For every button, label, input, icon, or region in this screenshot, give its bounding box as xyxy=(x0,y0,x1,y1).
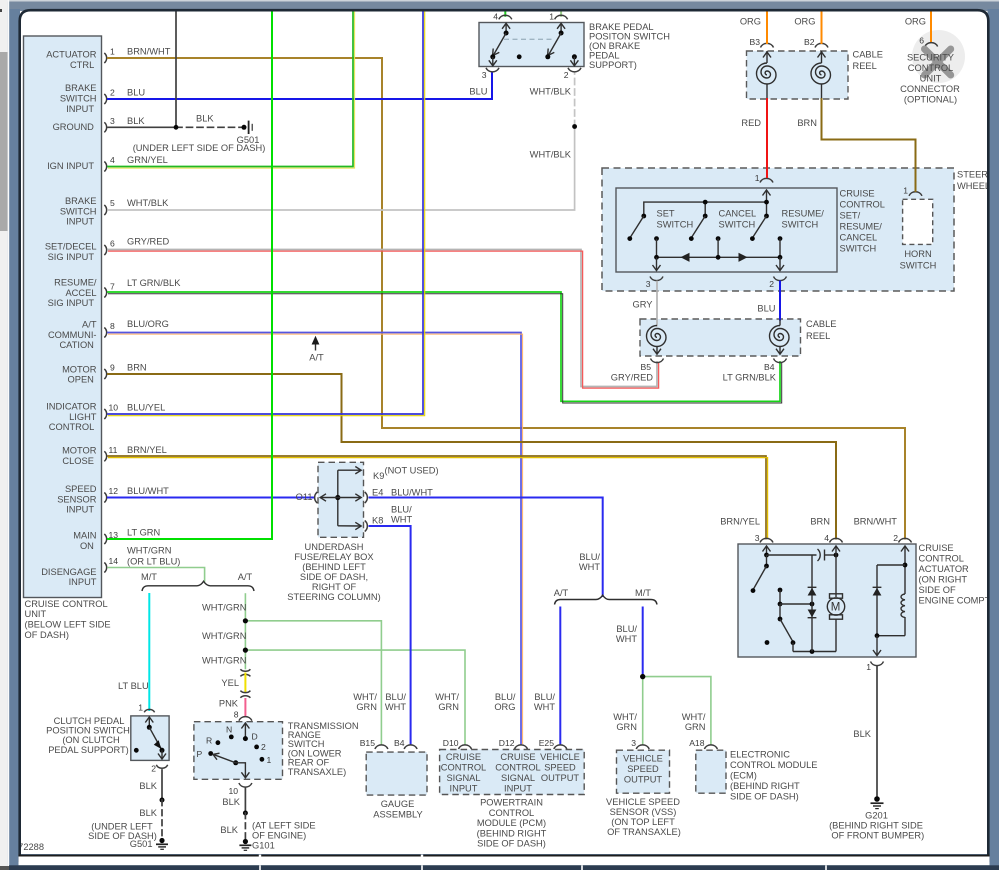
svg-text:VEHICLE SPEEDSENSOR (VSS)(ON T: VEHICLE SPEEDSENSOR (VSS)(ON TOP LEFTOF … xyxy=(606,797,681,837)
brake pedal position switch (ON BRAKE PEDAL SUPPORT) xyxy=(479,22,670,70)
svg-text:BLU/YEL: BLU/YEL xyxy=(127,403,165,413)
cable reel coil B2 side xyxy=(811,51,830,99)
svg-text:BLK: BLK xyxy=(139,808,157,818)
scrollbar xyxy=(0,0,9,870)
clutch switch internals xyxy=(134,717,166,759)
svg-text:LT GRN/BLK: LT GRN/BLK xyxy=(127,278,181,288)
A/T M/T brace split for speed signal xyxy=(554,588,657,605)
svg-text:BRN/YEL: BRN/YEL xyxy=(127,445,167,455)
connector A18 xyxy=(689,738,717,749)
svg-text:9: 9 xyxy=(110,363,115,373)
wire LT GRN pin13 net xyxy=(108,11,272,539)
wire WHT/BLK pin5 net: U1-5 to brake pedal switch pin 2 xyxy=(108,74,575,211)
svg-text:2: 2 xyxy=(261,742,266,752)
svg-text:B15: B15 xyxy=(360,738,376,748)
junction VSS split xyxy=(640,674,645,679)
wire BLU/YEL pin10 net xyxy=(108,11,425,416)
svg-text:B3: B3 xyxy=(749,37,760,47)
svg-text:3: 3 xyxy=(755,533,760,543)
svg-text:BLK: BLK xyxy=(220,825,238,835)
inline connector WHT/GRN-YEL xyxy=(240,669,250,676)
svg-text:10: 10 xyxy=(228,786,238,796)
svg-text:(BEHIND RIGHT SIDE: (BEHIND RIGHT SIDE xyxy=(829,821,923,831)
svg-text:BRN: BRN xyxy=(810,517,830,527)
wire WHT/GRN (OR LT BLU) pin14 net to M/T A/T split xyxy=(108,546,205,582)
wire GRY/RED pin6 net: U1-6 to cable reel B5 xyxy=(108,237,659,389)
svg-text:2: 2 xyxy=(564,70,569,80)
svg-text:(UNDER LEFT SIDE OF DASH): (UNDER LEFT SIDE OF DASH) xyxy=(133,143,266,153)
svg-text:WHT/GRN: WHT/GRN xyxy=(202,603,246,613)
svg-text:8: 8 xyxy=(110,321,115,331)
actuator pin3 entry arrow and main switch xyxy=(751,546,771,593)
wire ORG to B3 xyxy=(740,11,767,43)
cruise control set/resume/cancel switch box xyxy=(616,188,885,272)
brake switch pin 4 connector with green stub xyxy=(493,11,512,22)
clutch switch pin 2 connector xyxy=(151,764,167,774)
connector B2 xyxy=(804,37,828,48)
svg-text:ORG: ORG xyxy=(905,17,926,27)
wire BLU/WHT A/T branch to PCM E25 xyxy=(534,608,560,745)
svg-text:5: 5 xyxy=(110,198,115,208)
wire ORG to B2 xyxy=(794,11,821,43)
actuator pin2 branch with diode D3 and solenoid L1 xyxy=(873,546,909,656)
svg-text:OF FRONT BUMPER): OF FRONT BUMPER) xyxy=(831,831,924,841)
svg-text:PNK: PNK xyxy=(219,699,239,709)
svg-text:BLK: BLK xyxy=(139,781,157,791)
powertrain control module PCM (dashed) xyxy=(440,750,585,849)
fuse box E4 connector xyxy=(338,488,433,504)
wire BLK pin3 net to G501 splice xyxy=(108,11,242,127)
svg-text:BLK: BLK xyxy=(853,729,871,739)
svg-text:K9: K9 xyxy=(373,471,384,481)
set switch SW1 xyxy=(627,209,693,242)
svg-text:A/T: A/T xyxy=(238,572,253,582)
brake switch left pole xyxy=(489,23,510,66)
ground G201 (BEHIND RIGHT SIDE OF FRONT BUMPER) xyxy=(829,796,924,840)
wire BRN/WHT pin1 net: U1-1 to actuator pin 2 xyxy=(108,47,905,539)
cable reel lower coil B5 xyxy=(647,326,667,355)
svg-text:4: 4 xyxy=(493,12,498,22)
svg-text:(NOT USED): (NOT USED) xyxy=(385,466,439,476)
svg-text:4: 4 xyxy=(110,155,115,165)
U1 pin 12 connector xyxy=(104,486,118,503)
cruise switch top bus xyxy=(644,200,769,216)
wire BLU/WHT pin12 net: U1-12 to fuse box O11 xyxy=(108,486,314,498)
connector B5 xyxy=(611,359,664,383)
wire BLU/WHT M/T branch to VSS xyxy=(616,608,643,677)
svg-text:BLU: BLU xyxy=(127,88,145,98)
svg-text:B2: B2 xyxy=(804,37,815,47)
actuator secondary switch chain xyxy=(765,588,836,654)
wire BLU cruise switch pin2 to cable reel xyxy=(757,282,780,326)
svg-text:R: R xyxy=(206,736,212,746)
fuse box O11 connector xyxy=(296,492,338,503)
svg-text:7: 7 xyxy=(110,282,115,292)
wire ORG to security connector xyxy=(905,11,931,42)
actuator diode D2 (down) xyxy=(808,610,817,618)
svg-text:K8: K8 xyxy=(372,516,383,526)
svg-text:10: 10 xyxy=(109,403,119,413)
svg-text:M: M xyxy=(831,602,841,614)
svg-text:BLK: BLK xyxy=(127,116,145,126)
wire RED from B3 to cruise switch pin 1 xyxy=(741,99,767,177)
connector D10 xyxy=(443,738,472,749)
fuse box internal bus xyxy=(335,470,340,526)
svg-text:1: 1 xyxy=(110,47,115,57)
wire BLK from pin 10 to G101 xyxy=(222,788,247,841)
svg-text:4: 4 xyxy=(824,533,829,543)
svg-text:GRN/YEL: GRN/YEL xyxy=(127,155,168,165)
U1 pin 2 connector xyxy=(104,88,115,105)
actuator pin 2 connector xyxy=(893,533,911,543)
svg-text:3: 3 xyxy=(646,279,651,289)
wire BLU/ORG pin8 net: U1-8 to PCM D12 xyxy=(108,319,523,744)
horn switch pin 1 connector xyxy=(903,186,922,196)
svg-text:WHT/GRN: WHT/GRN xyxy=(353,692,377,712)
svg-text:CONNECTOR(OPTIONAL): CONNECTOR(OPTIONAL) xyxy=(900,84,960,105)
cable reel lower coil B4 xyxy=(770,326,790,355)
brake switch pin 1 connector with green stub xyxy=(549,11,567,22)
U1 pin 1 connector xyxy=(104,47,115,64)
svg-text:BLU/WHT: BLU/WHT xyxy=(385,692,407,712)
svg-text:12: 12 xyxy=(109,486,119,496)
svg-text:G201: G201 xyxy=(865,811,888,821)
svg-text:BLU: BLU xyxy=(469,87,487,97)
svg-text:E4: E4 xyxy=(372,488,383,498)
wire WHT/GRN branch to gauge assembly B15 xyxy=(245,621,381,744)
svg-text:WHT/GRN: WHT/GRN xyxy=(613,712,637,732)
svg-text:VEHICLESPEEDOUTPUT: VEHICLESPEEDOUTPUT xyxy=(623,754,663,785)
U1 pin 8 connector xyxy=(104,321,115,338)
svg-text:OF ENGINE): OF ENGINE) xyxy=(252,831,306,841)
brake switch pin 3 connector xyxy=(482,68,499,80)
connector B15 xyxy=(360,738,388,749)
gauge assembly (dashed) xyxy=(366,752,427,819)
svg-text:VEHICLESPEEDOUTPUT: VEHICLESPEEDOUTPUT xyxy=(540,752,580,783)
ground G501 (UNDER LEFT SIDE OF DASH) xyxy=(88,822,168,850)
svg-text:6: 6 xyxy=(919,36,924,46)
transmission switch pin 10 connector xyxy=(228,783,251,796)
svg-text:ORG: ORG xyxy=(794,17,815,27)
cruise control actuator (ON RIGHT SIDE OF ENGINE COMPT) xyxy=(738,543,993,657)
brake switch right pole xyxy=(545,23,578,66)
connector D12 xyxy=(499,738,528,749)
U1 pin 6 connector xyxy=(104,239,115,256)
actuator motor M xyxy=(827,594,844,652)
actuator pin4 line to motor xyxy=(832,546,840,597)
svg-text:(OR LT BLU): (OR LT BLU) xyxy=(127,557,180,567)
svg-text:POWERTRAINCONTROLMODULE (PCM)(: POWERTRAINCONTROLMODULE (PCM)(BEHIND RIG… xyxy=(477,798,547,849)
svg-text:WHT/BLK: WHT/BLK xyxy=(530,87,572,97)
svg-text:BLU/WHT: BLU/WHT xyxy=(534,692,556,712)
svg-text:WHT/GRN: WHT/GRN xyxy=(202,631,246,641)
wire WHT/GRN branch to PCM D10 xyxy=(245,650,465,744)
svg-text:2: 2 xyxy=(893,533,898,543)
wire YEL segment xyxy=(221,674,245,692)
M/T A/T brace split under pin14 xyxy=(141,572,254,591)
svg-text:E25: E25 xyxy=(539,738,555,748)
svg-text:1: 1 xyxy=(866,662,871,672)
svg-text:GRY/RED: GRY/RED xyxy=(127,237,169,247)
svg-text:A18: A18 xyxy=(689,738,705,748)
svg-text:3: 3 xyxy=(482,70,487,80)
svg-text:P: P xyxy=(197,749,203,759)
brake switch centre contact xyxy=(517,54,522,59)
svg-text:HORNSWITCH: HORNSWITCH xyxy=(900,249,937,271)
svg-text:G101: G101 xyxy=(252,841,275,851)
wire BLU/WHT E4 to A/T M/T split xyxy=(370,498,603,597)
svg-text:D10: D10 xyxy=(443,738,459,748)
connector E25 xyxy=(539,738,567,749)
wire BRN pin9 net: U1-9 to actuator pin 4 xyxy=(108,363,836,539)
svg-text:D: D xyxy=(252,732,258,742)
U1 pin 11 connector xyxy=(104,445,117,462)
clutch pedal position switch (ON CLUTCH PEDAL SUPPORT) xyxy=(46,716,169,761)
svg-text:(AT LEFT SIDE: (AT LEFT SIDE xyxy=(252,821,316,831)
G501 inline splice connector xyxy=(133,121,266,153)
wire WHT/GRN to VSS pin 3 xyxy=(613,677,642,744)
svg-text:D12: D12 xyxy=(499,738,515,748)
wire BLU pin2 net: U1-2 to brake pedal switch pin 3 xyxy=(108,74,492,100)
svg-text:WHT/GRN: WHT/GRN xyxy=(682,712,706,732)
actuator diode D1 (up) xyxy=(808,555,817,652)
ground G101 (AT LEFT SIDE OF ENGINE) xyxy=(220,821,315,851)
security control unit connector (optional, crossed out) xyxy=(900,28,965,105)
svg-text:O11: O11 xyxy=(296,492,313,502)
transmission range switch pin 8 connector xyxy=(234,710,252,721)
svg-text:1: 1 xyxy=(549,12,554,22)
clutch switch pin 1 connector xyxy=(138,703,154,713)
svg-text:ORG: ORG xyxy=(740,17,761,27)
svg-text:SIDE OF DASH): SIDE OF DASH) xyxy=(88,831,157,841)
actuator pin 3 connector xyxy=(755,533,773,543)
svg-text:WHT/BLK: WHT/BLK xyxy=(530,150,572,160)
wire LT BLU M/T branch to clutch switch pin 1 xyxy=(118,594,149,710)
svg-text:A/T: A/T xyxy=(309,353,324,363)
svg-text:N: N xyxy=(226,725,232,735)
svg-text:LT GRN/BLK: LT GRN/BLK xyxy=(723,373,777,383)
cancel switch SW2 xyxy=(689,209,756,242)
steering wheel enclosure (dashed) xyxy=(602,168,999,291)
U1 pin 3 connector xyxy=(104,116,115,133)
wire BLU/WHT K8 to gauge assembly B4 xyxy=(370,526,411,744)
junction WHT/GRN to D10 xyxy=(243,648,248,653)
fuse box K8 connector xyxy=(338,505,413,532)
cable reel (steering column, upper) xyxy=(747,50,884,100)
U1 pin 14 connector xyxy=(104,556,118,573)
svg-text:1: 1 xyxy=(138,703,143,713)
svg-text:BLU/WHT: BLU/WHT xyxy=(616,624,638,644)
wire PNK segment to transmission range switch pin 8 xyxy=(219,699,246,716)
svg-text:1: 1 xyxy=(267,755,272,765)
svg-text:BRN: BRN xyxy=(797,118,817,128)
wire WHT/GRN A/T branch down to transmission range switch xyxy=(202,594,246,669)
svg-text:LT BLU: LT BLU xyxy=(118,681,149,691)
svg-text:BLU/ORG: BLU/ORG xyxy=(127,319,169,329)
svg-text:WHT/GRN: WHT/GRN xyxy=(127,546,171,556)
junction WHT/GRN to B15 xyxy=(243,618,248,623)
svg-text:LT GRN: LT GRN xyxy=(127,528,160,538)
cruise switch fixed contacts and bottom bus with diode arrows xyxy=(654,236,782,262)
bottom separator and table header band xyxy=(0,855,999,870)
wire BLK from clutch switch to G501 xyxy=(139,770,164,839)
transmission switch position contacts N R D P 2 1 xyxy=(197,725,272,765)
inline connector YEL-PNK xyxy=(240,691,250,698)
svg-text:14: 14 xyxy=(109,556,119,566)
U1 pin 13 connector xyxy=(104,530,118,544)
svg-text:BLU/WHT: BLU/WHT xyxy=(391,505,412,525)
svg-text:M/T: M/T xyxy=(141,572,157,582)
vehicle speed sensor VSS (dashed) xyxy=(606,750,681,837)
svg-text:BLU: BLU xyxy=(757,304,775,314)
cruise switch pin1 entry arrow xyxy=(763,190,771,202)
U1 pin 10 connector xyxy=(104,403,118,420)
svg-text:6: 6 xyxy=(110,239,115,249)
node A/T branch arrow on BLU/ORG xyxy=(309,336,324,363)
svg-text:BLK: BLK xyxy=(222,797,240,807)
svg-text:GRY: GRY xyxy=(633,300,653,310)
svg-text:2: 2 xyxy=(110,88,115,98)
U1 pin 7 connector xyxy=(104,282,115,298)
resume switch SW3 xyxy=(750,209,824,242)
svg-text:1: 1 xyxy=(903,186,908,196)
svg-text:BLK: BLK xyxy=(196,114,214,124)
transmission switch pin8 entry arrow xyxy=(241,723,249,741)
cable reel (steering column, lower) xyxy=(640,319,837,356)
svg-text:RESUME/SWITCH: RESUME/SWITCH xyxy=(782,209,825,230)
actuator pin 1 connector xyxy=(866,662,883,673)
transmission switch output to pin 10 xyxy=(236,763,250,778)
cruise switch pin 1 connector xyxy=(755,173,773,183)
svg-text:BLU/WHT: BLU/WHT xyxy=(127,486,169,496)
U1 pin 9 connector xyxy=(104,363,115,380)
transmission range switch (ON LOWER REAR OF TRANSAXLE) xyxy=(194,721,359,779)
U1 pin 5 connector xyxy=(104,198,115,215)
svg-text:2: 2 xyxy=(769,279,774,289)
wire GRY cruise switch pin3 to cable reel xyxy=(633,282,657,326)
cable reel coil B3 side xyxy=(757,51,776,99)
wire GRN/YEL pin4 net xyxy=(108,11,355,168)
svg-text:M/T: M/T xyxy=(635,588,651,598)
svg-text:YEL: YEL xyxy=(221,678,239,688)
svg-text:11: 11 xyxy=(109,445,118,455)
brake switch pin 2 connector xyxy=(564,68,581,80)
svg-text:WHT/BLK: WHT/BLK xyxy=(127,198,169,208)
wire BLK actuator to G201 xyxy=(853,666,877,797)
cruise switch exit arrows to pins 3 and 2 xyxy=(653,257,785,270)
wire WHT/GRN branch to ECM A18 xyxy=(643,677,711,744)
brake switch mechanical link (dashed) xyxy=(504,38,555,40)
svg-text:2: 2 xyxy=(151,764,156,774)
actuator capacitor C1 xyxy=(767,549,839,561)
svg-text:3: 3 xyxy=(631,738,636,748)
svg-text:RED: RED xyxy=(741,118,761,128)
wire BRN from B2 to horn switch pin 1 xyxy=(797,99,915,191)
svg-text:3: 3 xyxy=(110,116,115,126)
svg-text:1: 1 xyxy=(755,173,760,183)
svg-text:B4: B4 xyxy=(764,362,775,372)
svg-text:GRY/RED: GRY/RED xyxy=(611,373,653,383)
actuator pin 4 connector xyxy=(824,533,842,543)
horn switch (dashed) xyxy=(900,199,937,270)
junction pin3/BLK riser xyxy=(174,125,179,130)
svg-text:BRN/YEL: BRN/YEL xyxy=(720,517,760,527)
fuse box K9 connector (NOT USED) xyxy=(338,466,439,482)
U1 pin 4 connector xyxy=(104,155,115,172)
wire BRN/YEL pin11 net: U1-11 to actuator pin 3 xyxy=(108,445,768,539)
wire LT GRN/BLK pin7 net: U1-7 to cable reel B4 xyxy=(108,278,782,403)
svg-text:WHT/GRN: WHT/GRN xyxy=(202,656,246,666)
transmission switch wiper blade to P xyxy=(213,753,238,765)
cruise switch pin 3 connector xyxy=(646,277,663,290)
svg-text:BRN/WHT: BRN/WHT xyxy=(127,47,171,57)
electronic control module ECM (dashed) xyxy=(696,750,818,802)
svg-text:B5: B5 xyxy=(640,362,651,372)
connector B3 xyxy=(749,37,773,48)
svg-text:B4: B4 xyxy=(394,738,405,748)
connector B4 (gauge) xyxy=(394,738,417,749)
svg-text:BLU/WHT: BLU/WHT xyxy=(391,488,433,498)
svg-text:BRN/WHT: BRN/WHT xyxy=(854,517,898,527)
connector B4 xyxy=(723,359,787,383)
connector 3 (VSS) xyxy=(631,738,649,749)
svg-text:BRN: BRN xyxy=(127,363,147,373)
junction WHT/BLK splice xyxy=(572,124,577,129)
svg-text:WHT/GRN: WHT/GRN xyxy=(435,692,459,712)
svg-text:BLU/ORG: BLU/ORG xyxy=(494,692,516,712)
svg-text:A/T: A/T xyxy=(554,588,569,598)
cruise control unit U1 (BELOW LEFT SIDE OF DASH) xyxy=(24,36,111,640)
svg-text:BLU/WHT: BLU/WHT xyxy=(579,552,601,572)
svg-text:CANCELSWITCH: CANCELSWITCH xyxy=(719,209,757,230)
cruise switch pin 2 connector xyxy=(769,277,786,290)
underdash fuse/relay box (dashed) xyxy=(287,462,381,602)
